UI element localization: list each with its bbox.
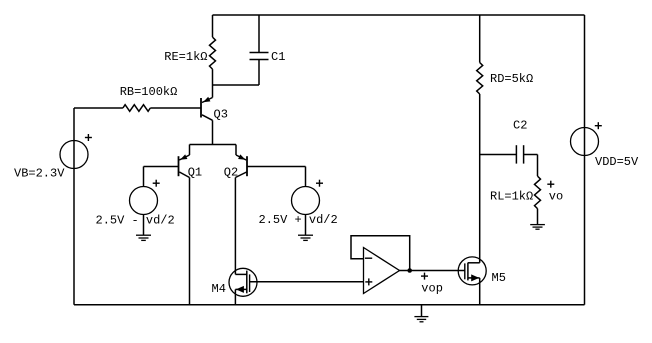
op-amp U1 xyxy=(364,248,400,294)
node vop junction dot xyxy=(407,268,412,273)
transistor Q3 xyxy=(201,85,213,145)
svg-text:Q1: Q1 xyxy=(188,166,202,180)
wire op-amp output to M5 gate xyxy=(400,270,465,272)
svg-text:C1: C1 xyxy=(271,50,285,64)
svg-text:VDD=5V: VDD=5V xyxy=(595,155,639,169)
voltage source V1 (2.5V - vd/2) xyxy=(130,167,160,236)
svg-text:Q2: Q2 xyxy=(224,166,238,180)
transistor Q2 xyxy=(235,145,247,275)
transistor Q1 xyxy=(179,145,190,305)
transistor M4 xyxy=(229,268,257,305)
ground under RL xyxy=(530,225,545,230)
resistor RL xyxy=(535,176,541,224)
svg-text:Q3: Q3 xyxy=(214,107,228,121)
svg-text:RE=1kΩ: RE=1kΩ xyxy=(164,50,207,64)
node label vop xyxy=(421,273,428,280)
capacitor C2 xyxy=(480,145,538,176)
wire RE/C1 bottom junction to Q3 emitter node xyxy=(213,84,260,86)
svg-text:M4: M4 xyxy=(212,282,226,296)
transistor M5 xyxy=(458,257,486,305)
svg-text:2.5V + vd/2: 2.5V + vd/2 xyxy=(259,213,338,227)
wire Q2 base xyxy=(247,166,306,168)
capacitor C1 xyxy=(250,15,269,85)
svg-text:vo: vo xyxy=(549,190,563,204)
svg-text:2.5V - vd/2: 2.5V - vd/2 xyxy=(96,213,175,227)
voltage source VDD xyxy=(571,122,602,155)
wire Q1 base xyxy=(144,166,179,168)
svg-text:RL=1kΩ: RL=1kΩ xyxy=(490,190,533,204)
wire left rail xyxy=(73,108,75,305)
svg-text:VB=2.3V: VB=2.3V xyxy=(14,166,65,180)
wire diff-pair emitter split xyxy=(190,144,237,146)
node label vo xyxy=(547,181,554,188)
ground under V1 xyxy=(136,235,151,240)
wire M4 gate to op-amp + input xyxy=(250,281,364,283)
svg-text:vop: vop xyxy=(421,282,443,296)
svg-text:C2: C2 xyxy=(513,118,527,132)
svg-text:M5: M5 xyxy=(492,271,506,285)
ground under V2 xyxy=(298,235,313,240)
svg-text:RD=5kΩ: RD=5kΩ xyxy=(490,72,533,86)
resistor RB xyxy=(74,105,201,112)
wire top supply rail xyxy=(213,14,585,16)
voltage source V2 (2.5V + vd/2) xyxy=(292,167,324,236)
ground main xyxy=(414,305,428,322)
wire right rail xyxy=(584,15,586,305)
resistor RE xyxy=(210,15,216,85)
voltage source VB xyxy=(60,134,92,169)
resistor RD xyxy=(477,15,483,263)
wire bottom ground rail xyxy=(74,304,585,306)
svg-text:RB=100kΩ: RB=100kΩ xyxy=(120,85,178,99)
wire op-amp feedback loop xyxy=(351,236,410,271)
